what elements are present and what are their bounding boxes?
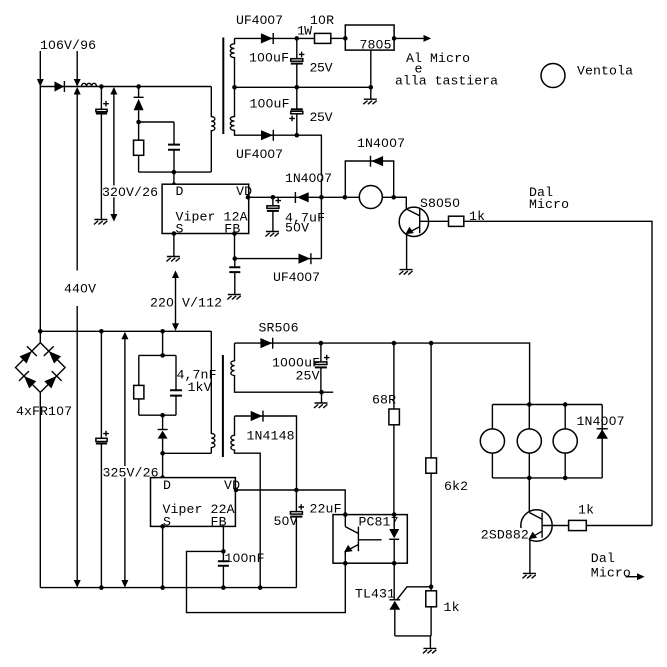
svg-text:Micro: Micro: [591, 566, 631, 581]
optocoupler PC817 box: [333, 515, 407, 564]
capacitor 4,7nF 1kV: [170, 355, 182, 415]
wire: S8050 base to 1k: [420, 220, 449, 222]
node: 7805 input pin: [343, 36, 348, 41]
capacitor 100nF: [218, 551, 229, 587]
diode SR506: [260, 338, 272, 349]
transistor S8050 (NPN): [399, 207, 428, 270]
node: PC817 pin anode (top-right): [392, 512, 397, 517]
resistor 1k (divider): [426, 591, 437, 636]
wire: bank bottom to 2SD882 collector: [528, 478, 530, 513]
node: bank top mid: [527, 402, 532, 407]
resistor 1k (S8050 base): [449, 216, 464, 226]
wire: VD output wire of Viper 12A: [249, 196, 407, 198]
svg-text:4xFR107: 4xFR107: [16, 404, 72, 419]
wire: -25V to 1N4007 node: [297, 135, 322, 258]
node: junction rail / clamp branch: [136, 84, 141, 89]
node: bus / snubber branch: [160, 329, 165, 334]
capacitor 100uF 25V (lower, -25V): [289, 87, 303, 135]
diode UF4007 (lower, on -25V wire): [261, 130, 273, 141]
wire: TL431 anode to 1k bottom: [395, 635, 431, 637]
svg-text:25V: 25V: [296, 368, 320, 383]
node arrowhead: 106V/96 measurement arrow tip at top rail (x=40): [37, 79, 44, 87]
wire: top rail from x=40 to transformer primary corner: [40, 86, 211, 88]
transistor 2SD882 (NPN): [521, 510, 552, 574]
wire: secondary A to rectifier: [235, 37, 297, 39]
node: VD pin Viper 22A: [234, 488, 239, 493]
label 2SD882 (white background): [480, 528, 529, 543]
ground: under input cap: [94, 220, 108, 225]
svg-text:FB: FB: [224, 222, 240, 237]
LED inside PC817 (points down): [389, 515, 399, 564]
node: secondary B on ground rail: [258, 585, 263, 590]
wire: S pin stub Viper 22A to ground rail: [162, 526, 164, 587]
svg-text:1k: 1k: [444, 600, 460, 615]
wire: 106V/96 second measurement line: [76, 51, 78, 79]
node: -25V junction: [295, 133, 300, 138]
diode 1N4007 flyback (points left): [371, 156, 384, 167]
wire: S pin stub of Viper 12A: [173, 234, 175, 257]
svg-text:1N4148: 1N4148: [247, 428, 295, 443]
relay coil B (circle): [517, 405, 541, 478]
wire: DC bus 325V: [40, 330, 211, 332]
svg-text:Dal: Dal: [591, 551, 615, 566]
node: drain node / D pin stub: [172, 170, 177, 175]
resistor snubber (T2): [134, 355, 144, 415]
wire: clamp RC top: [139, 121, 174, 123]
svg-text:1kV: 1kV: [188, 380, 212, 395]
label 325V/26 (white background over arrow): [103, 465, 159, 480]
node: +25V rectifier output: [295, 36, 300, 41]
relay coil 1 (circle): [359, 186, 382, 209]
capacitor 1000uF 25V: [315, 343, 330, 392]
svg-text:106V/96: 106V/96: [40, 38, 96, 53]
wire: relay bank bottom rail: [492, 477, 602, 479]
node: PC817 pin cathode (bottom-right): [392, 561, 397, 566]
node: bank bottom mid: [527, 476, 532, 481]
node: PC817 pin collector (top-left): [343, 512, 348, 517]
label 440V (white background over arrow): [64, 271, 97, 307]
wire: 1N4148 wire: [235, 416, 297, 490]
wire: left vertical from 106V/96 label down to DC bus: [39, 51, 41, 331]
wire: SR506 output rail: [235, 343, 530, 404]
node: junction top rail / input cap: [99, 84, 104, 89]
svg-text:2SD882: 2SD882: [481, 528, 529, 543]
wire: stub right of secondary return: [322, 391, 334, 393]
resistor 6k2 branch: [426, 343, 437, 591]
transformer T1 primary winding: [211, 87, 215, 173]
capacitor 4,7uF 50V: [267, 197, 281, 231]
wire: relay1 flyback loop: [345, 161, 393, 197]
capacitor 22uF 50V: [290, 490, 304, 588]
node: S pin on ground rail: [160, 585, 165, 590]
wire: D pin stub Viper 22A: [162, 453, 164, 477]
diode input series (on top rail): [55, 81, 65, 92]
node: 7805 output pin: [392, 36, 397, 41]
node: transformer center tap: [232, 85, 237, 90]
ground: main secondary ground: [363, 87, 377, 104]
capacitor clamp C: [168, 122, 180, 172]
relay coil C (circle): [553, 405, 577, 478]
node: FB junction Viper 22A: [221, 549, 226, 554]
wire: PC817 cathode down to TL431: [393, 563, 395, 600]
svg-text:UF4007: UF4007: [236, 13, 283, 28]
node: snubber top: [160, 353, 165, 358]
node: 7805 gnd junction: [369, 85, 374, 90]
svg-text:6k2: 6k2: [444, 479, 468, 494]
diode 1N4148: [251, 411, 263, 422]
bridge rectifier 4xFR107: [16, 331, 66, 587]
svg-text:Ventola: Ventola: [577, 63, 633, 78]
IC Viper 12A box: [162, 184, 249, 233]
diode UF4007 (upper, on +25V wire): [261, 33, 273, 44]
label 320V/26 (white background over arrow): [102, 185, 159, 200]
TL431 shunt regulator: [389, 587, 431, 636]
diode clamp D (RCD) pointing up: [134, 87, 144, 123]
wire: FB to UF4007 feedback diode: [235, 258, 322, 260]
zero glyph dot patches (font fix): [51, 18, 614, 559]
svg-text:1N4007: 1N4007: [357, 136, 405, 151]
wire: snubber branch from bus: [162, 331, 164, 355]
ground: under S pin Viper 12A: [166, 257, 180, 262]
wire: bottom ground rail: [40, 587, 296, 589]
diode 1N4007 flyback (relay bank, points up): [596, 405, 608, 478]
wire: FB pin stub Viper 22A: [222, 526, 224, 551]
wire: 10R to 7805: [331, 37, 346, 39]
wire: drain node to primary bottom: [163, 452, 212, 454]
svg-text:1W: 1W: [297, 23, 312, 38]
transformer T2 primary winding: [211, 331, 215, 453]
node: bus left (bridge + top feed): [38, 329, 43, 334]
svg-text:S: S: [176, 222, 184, 237]
node: -25V feed joins VD wire: [319, 195, 324, 200]
node: bus / bulk cap2: [99, 329, 104, 334]
IC Viper 22A box: [151, 478, 236, 527]
ground: TL431 anode: [423, 636, 437, 654]
resistor 1k (2SD882 base): [569, 520, 587, 530]
wire: 1k to right vertical: [586, 525, 652, 527]
wire: 440V measurement arrow (double headed, x=77): [74, 87, 81, 588]
node: 4,7uF top: [271, 195, 276, 200]
wire: clamp bottom / drain node to primary: [139, 171, 211, 173]
transformer T2 secondary B (lower): [231, 416, 260, 588]
node: bank bottom right: [563, 476, 568, 481]
arrow: Dal Micro direction: [626, 573, 645, 580]
wire: 7805 output with arrow: [394, 35, 431, 42]
relay coil A (circle): [480, 405, 504, 478]
wire: 7805 ground stub: [370, 50, 372, 87]
node: VD pin: [246, 195, 251, 200]
svg-text:440V: 440V: [64, 281, 96, 296]
wire: D pin stub of Viper 12A: [173, 172, 175, 184]
ground: under FB cap: [227, 295, 241, 300]
node: 22uF / 1N4148 4-way junction: [294, 488, 299, 493]
wire: base line to right edge and down: [464, 221, 652, 525]
transformer T2 core: [222, 355, 224, 457]
node: 68R tap on SR506 rail: [392, 341, 397, 346]
node: secondary A return: [319, 390, 324, 395]
node: T2 drain node: [160, 451, 165, 456]
diode UF4007 (feedback): [299, 253, 311, 264]
svg-text:D: D: [176, 184, 184, 199]
svg-text:SR506: SR506: [259, 320, 299, 335]
wire: FB pin stub of Viper 12A: [234, 234, 236, 259]
svg-text:D: D: [163, 478, 171, 493]
node: divider tap (6k2 / 1k / ref): [429, 585, 434, 590]
svg-text:1N4007: 1N4007: [285, 171, 332, 186]
node: snubber bottom: [160, 413, 165, 418]
wire: 325V/26 measurement arrow (double headed, x=125): [121, 332, 128, 588]
svg-text:25V: 25V: [310, 110, 333, 125]
resistor clamp R: [134, 122, 144, 172]
ground: 2SD882 emitter: [522, 573, 536, 578]
capacitor FB filter: [229, 259, 240, 295]
transformer T1 core: [222, 38, 224, 135]
ground: under 4,7uF: [265, 232, 279, 237]
wire: FB loop to optocoupler emitter: [187, 551, 346, 612]
wire: to 10R resistor: [297, 37, 315, 39]
wire: snubber bottom rail: [139, 414, 176, 416]
svg-text:1k: 1k: [578, 502, 594, 517]
svg-text:PC817: PC817: [359, 514, 399, 529]
node: 100nF on ground rail: [221, 585, 226, 590]
svg-text:7805: 7805: [360, 38, 392, 53]
inductor L1 on top rail: [82, 83, 97, 86]
wire: relay bank top rail: [492, 404, 602, 406]
node: FB junction: [233, 256, 238, 261]
svg-text:Micro: Micro: [529, 197, 569, 212]
svg-text:UF4007: UF4007: [236, 147, 283, 162]
node arrowhead: 106V/96 arrow tip at rail (x=77): [74, 79, 81, 87]
node: caps midpoint on center-tap rail: [295, 85, 300, 90]
wire: relay1 to S8050 collector: [394, 197, 407, 209]
capacitor 100uF 25V (upper): [291, 38, 305, 87]
svg-text:25V: 25V: [310, 60, 333, 75]
resistor 68R branch: [389, 343, 400, 514]
svg-text:68R: 68R: [372, 392, 396, 407]
svg-text:220 V/112: 220 V/112: [150, 295, 222, 310]
capacitor input electrolytic (106V side): [96, 87, 109, 220]
wire: 2SD882 base to 1k: [542, 525, 569, 527]
node: clamp RC top junction: [136, 120, 141, 125]
node: bank top right: [563, 402, 568, 407]
node: relay1 right: [391, 195, 396, 200]
resistor 10R 1W: [315, 33, 331, 43]
svg-text:alla tastiera: alla tastiera: [395, 73, 498, 88]
wire: snubber top rail: [139, 354, 176, 356]
capacitor bulk electrolytic (325V): [96, 331, 109, 587]
diode clamp (T2) pointing up: [158, 415, 168, 453]
transformer T1 secondary B (lower): [230, 87, 297, 135]
wire: VD wire of Viper 22A: [235, 490, 345, 515]
transformer T1 secondary A (upper): [230, 38, 234, 87]
svg-text:1N4007: 1N4007: [577, 414, 625, 429]
ground: secondary A return: [314, 392, 328, 408]
fan Ventola (circle): [541, 64, 565, 88]
wire: 220 V/112 measurement arrow (double headed, x=175.5): [172, 270, 179, 331]
node: bulk cap2 on ground rail: [99, 585, 104, 590]
node: 6k2 tap on SR506 rail: [429, 341, 434, 346]
wire: 320V/26 measurement arrow (double headed, x=114): [110, 87, 117, 222]
node: 1000uF top: [319, 341, 324, 346]
svg-text:320V/26: 320V/26: [102, 185, 158, 200]
svg-text:UF4007: UF4007: [273, 270, 320, 285]
phototransistor inside PC817: [344, 515, 382, 564]
regulator 7805 box: [345, 25, 394, 50]
diode 1N4007 (points left, on VD wire): [295, 192, 308, 203]
ground: under S8050 emitter: [399, 270, 413, 275]
svg-text:TL431: TL431: [355, 587, 395, 602]
svg-text:FB: FB: [211, 514, 227, 529]
node: relay1 left: [343, 195, 348, 200]
wire: center-tap rail: [235, 86, 371, 88]
transformer T2 secondary A (upper): [231, 343, 322, 392]
node: PC817 pin emitter (bottom-left): [343, 561, 348, 566]
